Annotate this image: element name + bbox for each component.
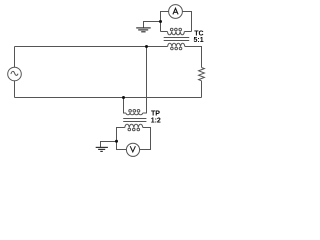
node dot: bottom rail / TP lead — [122, 96, 125, 99]
wire bottom rail — [15, 97, 202, 99]
wire left vertical top (source to top rail) — [14, 47, 16, 68]
transformer TC secondary winding — [167, 32, 184, 35]
node dot: voltmeter ground — [115, 140, 118, 143]
transformer TC core — [164, 37, 190, 39]
resistor R — [199, 68, 205, 81]
node dot: ammeter ground — [159, 20, 162, 23]
wire TP secondary left lead / V loop left — [117, 128, 127, 150]
wire ammeter loop left/top — [161, 12, 169, 32]
transformer TP primary winding — [126, 113, 143, 115]
wire TC secondary right flat — [184, 31, 191, 33]
transformer TC primary winding — [168, 43, 185, 46]
ground (voltmeter) — [96, 147, 108, 151]
ammeter A — [169, 5, 183, 19]
svg-text:5:1: 5:1 — [194, 37, 204, 44]
wire ammeter loop right — [182, 12, 191, 32]
wire left vertical bottom (source to bottom rail) — [14, 81, 16, 98]
transformer TP secondary winding — [125, 124, 143, 127]
AC source V1 — [8, 67, 22, 81]
voltmeter V — [126, 143, 139, 156]
wire TP primary right lead (up to top rail) — [143, 47, 147, 114]
wire right vertical below resistor — [201, 81, 203, 98]
transformer TP core — [123, 118, 146, 120]
meter letter A — [173, 8, 178, 14]
wire top rail — [15, 46, 168, 48]
wire TP secondary right lead / V loop right — [139, 128, 150, 150]
node dot: top rail / TP lead — [145, 45, 148, 48]
wire TC secondary left flat — [161, 31, 168, 33]
meter letter V — [130, 146, 135, 152]
wire top rail right segment to corner — [185, 47, 202, 68]
wire ammeter ground tap — [144, 22, 161, 28]
wire voltmeter ground tap — [101, 142, 117, 148]
wire TP primary left lead — [124, 98, 126, 114]
ground (ammeter) — [136, 28, 151, 32]
svg-text:1:2: 1:2 — [151, 117, 161, 124]
